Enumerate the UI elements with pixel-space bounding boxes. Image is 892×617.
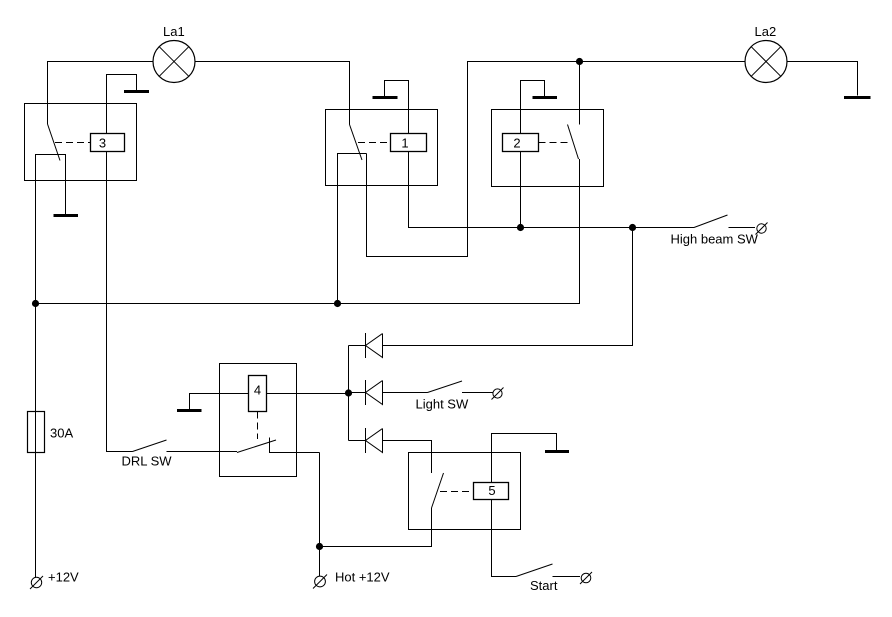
svg-text:4: 4	[254, 383, 261, 398]
wire relay U5 coil top to ground	[492, 434, 557, 483]
wire relay U4 coil right to diode bus	[267, 393, 349, 395]
lamp La1	[153, 24, 195, 83]
svg-text:La1: La1	[163, 24, 185, 39]
wire relay U1 coil top to ground	[385, 81, 409, 134]
wire diode D3 to relay U5 contact	[383, 441, 432, 474]
relay U4 switch blade	[237, 440, 276, 453]
wire Light SW to terminal	[462, 392, 493, 394]
switch Light SW blade	[428, 381, 463, 393]
svg-text:30A: 30A	[50, 426, 73, 441]
relay U5 outer box	[409, 453, 521, 530]
wire relay U2 switch feed from La2 net	[579, 62, 581, 125]
relay U4 contact hook	[270, 438, 320, 453]
wire High beam SW to terminal	[729, 227, 756, 229]
relay U3 switch blade	[48, 124, 61, 161]
wire relay U4 coil left to ground	[190, 394, 249, 410]
relay U3 coil linkage (dashed)	[55, 142, 90, 144]
node dot at La2 feed / relay U2 switch tap	[576, 58, 583, 65]
relay U4 coil linkage (dashed)	[257, 412, 259, 440]
terminal Hot +12V	[313, 575, 327, 589]
wire +12V feed up to relay U3 contact	[35, 304, 37, 412]
terminal Start	[580, 572, 592, 584]
ground at relay U3 contact	[54, 214, 79, 217]
relay U2 outer box	[492, 110, 604, 187]
ground at relay U4 coil	[177, 409, 202, 412]
relay U5 coil linkage (dashed)	[440, 491, 474, 493]
node dot relay U2 coil junction	[517, 224, 524, 231]
wire relay U5 coil bottom to Start SW	[492, 500, 517, 577]
node dot DRL net at relay U1 contact	[334, 300, 341, 307]
ground at relay U3 coil	[124, 90, 149, 93]
switch DRL SW blade	[133, 440, 167, 452]
node dot Hot +12V junction	[316, 543, 323, 550]
relay U4 outer box	[220, 364, 297, 477]
ground at La2 right	[844, 96, 871, 99]
fuse F1 30A	[28, 412, 74, 453]
wire Start SW to terminal	[553, 576, 581, 578]
relay U1 coil box	[391, 134, 427, 152]
wire diode common bus	[348, 346, 350, 441]
diode D3	[349, 428, 383, 453]
wire relay U3 coil top to ground	[107, 75, 137, 134]
svg-text:+12V: +12V	[48, 570, 79, 585]
wire DRL SW to relay U4 switch	[167, 451, 238, 453]
switch Start blade	[516, 564, 553, 577]
svg-text:3: 3	[99, 136, 106, 151]
ground at relay U2 coil	[533, 96, 558, 99]
relay U2 coil box	[503, 134, 539, 152]
switch High beam SW blade	[694, 215, 728, 228]
relay U3 contact bracket	[36, 155, 66, 304]
node dot diode bus at relay U4 coil	[345, 389, 352, 396]
wire relay U3 coil bottom to DRL SW	[107, 152, 133, 452]
relay U2 coil linkage (dashed)	[539, 142, 572, 144]
svg-text:2: 2	[513, 136, 520, 151]
wire relay U2 coil bottom to high-beam net	[520, 152, 522, 228]
svg-text:La2: La2	[755, 24, 777, 39]
relay U3 outer box	[25, 104, 137, 181]
terminal High beam SW	[756, 223, 768, 235]
svg-text:Light SW: Light SW	[416, 397, 469, 412]
svg-text:High beam SW: High beam SW	[671, 232, 759, 247]
lamp La2	[745, 24, 787, 83]
relay U2 switch blade	[568, 125, 579, 160]
wire fuse to +12V terminal	[35, 453, 37, 578]
diode D1	[349, 333, 383, 358]
svg-text:Hot +12V: Hot +12V	[335, 570, 390, 585]
relay U5 coil box	[474, 483, 509, 500]
relay U4 coil box	[249, 376, 267, 412]
terminal Light SW	[492, 388, 504, 400]
wire relay U2 contact down to DRL net	[36, 159, 580, 304]
relay U1 outer box	[326, 110, 438, 186]
wire La1 right to relay U1 switch	[195, 62, 350, 125]
ground at relay U1 coil	[373, 96, 398, 99]
wire La1 left to relay U3 switch	[48, 62, 154, 125]
relay U1 contact bracket	[338, 154, 367, 304]
wire relay U4 contact down to Hot +12V	[319, 453, 321, 577]
wire relay U1 coil bottom to high-beam net	[409, 152, 695, 228]
svg-text:1: 1	[401, 136, 408, 151]
wire headlight feed: relay U1 contact to La2	[367, 62, 746, 257]
node dot DRL net left	[32, 300, 39, 307]
svg-text:Start: Start	[530, 578, 558, 593]
relay U5 switch blade	[432, 473, 444, 508]
wire La2 right to ground	[787, 62, 858, 96]
relay U3 coil box	[91, 134, 125, 152]
wire relay U2 coil top to ground	[521, 81, 545, 134]
diode D2	[349, 380, 428, 405]
svg-text:5: 5	[488, 483, 495, 498]
wire Hot +12V junction to relay U5 switch	[320, 508, 432, 547]
relay U1 switch blade	[350, 125, 363, 161]
svg-text:DRL SW: DRL SW	[122, 454, 173, 469]
node dot high-beam diode junction	[629, 224, 636, 231]
wire high-beam net down to diode D1	[383, 228, 633, 346]
terminal +12V	[30, 576, 43, 589]
relay U1 coil linkage (dashed)	[358, 142, 391, 144]
ground at relay U5 coil	[545, 450, 569, 453]
